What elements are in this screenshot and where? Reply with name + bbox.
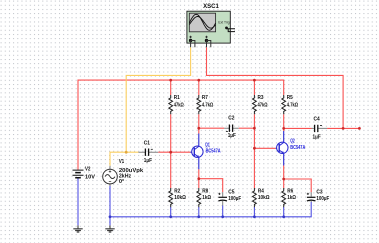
wire: R1 top lead — [170, 80, 172, 95]
svg-text:1kΩ: 1kΩ — [287, 195, 296, 201]
wire: R1 bottom to base node to R2 top — [170, 114, 172, 188]
resistor R6 — [282, 188, 286, 207]
svg-text:100µF: 100µF — [316, 196, 329, 202]
svg-text:C3: C3 — [316, 189, 322, 195]
resistor R5 — [282, 95, 286, 114]
capacitor C4 — [312, 125, 328, 132]
wire: R5 bottom to Q2 collector node — [283, 114, 285, 131]
svg-text:BC547A: BC547A — [290, 145, 305, 151]
capacitor C5 (polarized) — [218, 192, 227, 205]
wire: R8 bottom lead blue — [198, 207, 200, 217]
svg-text:100µF: 100µF — [228, 196, 241, 202]
svg-text:R3: R3 — [258, 95, 264, 101]
wire: V1 top to C1 left (yellow input) — [110, 152, 138, 166]
svg-text:1kΩ: 1kΩ — [202, 195, 211, 201]
svg-text:1µF: 1µF — [313, 135, 322, 141]
resistor R3 — [253, 95, 257, 114]
oscilloscope XSC1 — [187, 11, 235, 47]
svg-text:C1: C1 — [144, 140, 150, 146]
svg-text:Ext Trig: Ext Trig — [218, 21, 229, 25]
wire: scope channel A to input node (yellow) — [126, 47, 190, 152]
svg-text:BC547A: BC547A — [206, 149, 221, 155]
svg-text:1µF: 1µF — [228, 133, 237, 139]
wire: VCC rail from V2 top across resistor tops — [78, 80, 284, 170]
svg-text:10kΩ: 10kΩ — [174, 195, 186, 201]
transistor Q2 — [276, 131, 288, 166]
svg-text:C2: C2 — [228, 115, 234, 121]
wire: V2 bottom to ground — [77, 178, 79, 225]
resistor R8 — [197, 188, 201, 207]
svg-text:10V: 10V — [85, 174, 95, 180]
svg-text:10kΩ: 10kΩ — [258, 195, 270, 201]
wire: Q2 emitter down — [283, 166, 285, 189]
wire: R3 bottom through C2 node to Q2 base node to R4 top — [253, 114, 255, 188]
resistor R1 — [169, 95, 173, 114]
junction dot yellow (input node) — [125, 151, 128, 154]
capacitor C2 — [224, 125, 239, 132]
wire: R7 bottom to collector node — [198, 114, 200, 133]
wire: R7 top lead — [198, 80, 200, 95]
svg-text:R5: R5 — [287, 95, 293, 101]
svg-text:XSC1: XSC1 — [203, 3, 219, 10]
wire: C4 right to output terminal — [327, 127, 359, 129]
ground (V2) — [73, 225, 82, 232]
wire: Q2 base node to Q2 base — [254, 147, 275, 149]
svg-text:47kΩ: 47kΩ — [174, 103, 184, 109]
svg-text:Q2: Q2 — [290, 138, 295, 144]
svg-text:R8: R8 — [202, 189, 208, 195]
wire: Q1 emitter node to C5 top — [199, 179, 223, 193]
wire: V1 bottom to ground — [109, 184, 111, 226]
wire: R2 bottom lead blue — [170, 207, 172, 217]
svg-text:R7: R7 — [202, 95, 208, 101]
transistor Q1 — [190, 134, 203, 170]
battery V2 — [73, 170, 84, 178]
wire: R4 bottom lead blue — [253, 207, 255, 217]
resistor R4 — [253, 188, 257, 207]
svg-text:R1: R1 — [174, 95, 180, 101]
svg-text:0°: 0° — [119, 179, 124, 185]
capacitor C1 — [138, 149, 158, 156]
svg-text:R2: R2 — [174, 189, 180, 195]
wire: Q2 emitter node to C3 top — [284, 179, 312, 192]
wire: C1 right to Q1 base — [158, 151, 190, 153]
resistor R7 — [197, 95, 201, 114]
svg-text:V1: V1 — [119, 159, 124, 165]
svg-text:47kΩ: 47kΩ — [258, 103, 268, 109]
svg-text:C5: C5 — [228, 189, 234, 195]
wire: scope channel B to output node — [207, 47, 344, 128]
svg-text:R6: R6 — [287, 189, 293, 195]
wire: R6 bottom lead blue — [283, 207, 285, 217]
svg-text:1µF: 1µF — [144, 158, 153, 164]
wire: ground rail (blue) — [110, 202, 311, 217]
junction dots blue (ground rail) — [109, 215, 286, 218]
resistor R2 — [169, 188, 173, 207]
wire: Q1 emitter down — [198, 169, 200, 188]
wire: C5 bottom lead blue — [222, 206, 224, 217]
svg-text:R4: R4 — [258, 189, 265, 195]
svg-text:4.7kΩ: 4.7kΩ — [202, 103, 214, 109]
svg-text:C4: C4 — [314, 116, 321, 122]
svg-text:V2: V2 — [85, 166, 90, 172]
wire: R3 top lead — [253, 80, 255, 95]
wire: collector node to C2 left — [199, 127, 224, 129]
svg-text:4.7kΩ: 4.7kΩ — [287, 103, 299, 109]
junction dots red — [169, 79, 360, 181]
AC source V1 — [103, 166, 118, 186]
wire: Q2 collector node to C4 left — [284, 127, 312, 129]
svg-text:Q1: Q1 — [205, 143, 210, 149]
ground (V1) — [105, 225, 114, 232]
wire: C2 right to R3 column — [239, 127, 255, 129]
capacitor C3 (polarized) — [307, 192, 316, 202]
